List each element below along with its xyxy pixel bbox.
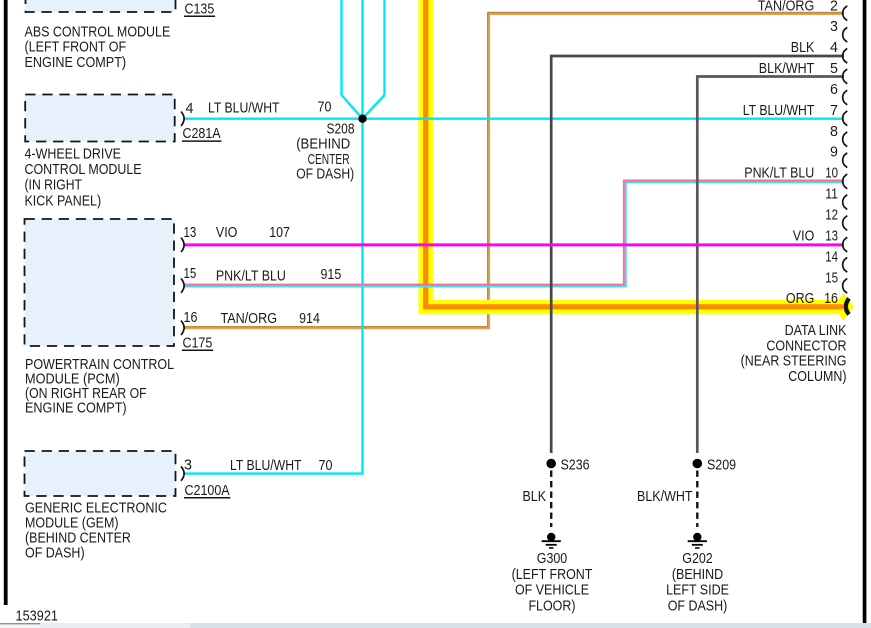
svg-text:6: 6 bbox=[830, 82, 838, 98]
svg-text:13: 13 bbox=[184, 225, 197, 241]
svg-text:POWERTRAIN CONTROL: POWERTRAIN CONTROL bbox=[25, 357, 174, 373]
svg-text:4: 4 bbox=[830, 40, 838, 56]
svg-text:ABS CONTROL MODULE: ABS CONTROL MODULE bbox=[25, 24, 171, 40]
svg-text:VIO: VIO bbox=[216, 225, 238, 241]
svg-text:G300: G300 bbox=[537, 551, 568, 567]
svg-text:PNK/LT BLU: PNK/LT BLU bbox=[216, 269, 286, 285]
svg-text:C175: C175 bbox=[183, 335, 213, 351]
svg-text:16: 16 bbox=[824, 291, 838, 307]
svg-text:3: 3 bbox=[830, 19, 838, 35]
svg-text:CONNECTOR: CONNECTOR bbox=[766, 338, 846, 354]
svg-text:2: 2 bbox=[830, 0, 838, 14]
svg-text:9: 9 bbox=[830, 145, 838, 161]
svg-text:S236: S236 bbox=[561, 457, 590, 473]
svg-text:BLK: BLK bbox=[791, 40, 815, 56]
svg-text:(LEFT FRONT: (LEFT FRONT bbox=[512, 567, 593, 583]
svg-text:FLOOR): FLOOR) bbox=[528, 598, 575, 614]
svg-text:KICK PANEL): KICK PANEL) bbox=[25, 193, 102, 209]
svg-text:(BEHIND CENTER: (BEHIND CENTER bbox=[25, 531, 131, 547]
svg-text:S209: S209 bbox=[707, 457, 736, 473]
svg-text:15: 15 bbox=[825, 270, 838, 286]
svg-text:MODULE (GEM): MODULE (GEM) bbox=[25, 516, 119, 532]
svg-text:OF DASH): OF DASH) bbox=[296, 166, 354, 182]
svg-text:(IN RIGHT: (IN RIGHT bbox=[25, 178, 83, 194]
svg-text:153921: 153921 bbox=[16, 609, 59, 625]
svg-text:BLK/WHT: BLK/WHT bbox=[637, 489, 693, 505]
svg-text:BLK/WHT: BLK/WHT bbox=[759, 61, 815, 77]
svg-text:OF DASH): OF DASH) bbox=[668, 598, 728, 614]
svg-text:LT BLU/WHT: LT BLU/WHT bbox=[208, 100, 280, 116]
svg-text:15: 15 bbox=[184, 266, 197, 282]
svg-text:(NEAR STEERING: (NEAR STEERING bbox=[741, 354, 847, 370]
svg-text:ENGINE COMPT): ENGINE COMPT) bbox=[25, 401, 127, 417]
svg-text:VIO: VIO bbox=[793, 228, 815, 244]
svg-text:4: 4 bbox=[186, 101, 194, 117]
svg-text:ORG: ORG bbox=[786, 291, 814, 307]
svg-text:C281A: C281A bbox=[183, 126, 222, 142]
svg-text:C135: C135 bbox=[185, 1, 215, 17]
svg-text:G202: G202 bbox=[682, 551, 713, 567]
svg-text:3: 3 bbox=[184, 457, 192, 473]
svg-text:8: 8 bbox=[830, 124, 838, 140]
svg-text:LT BLU/WHT: LT BLU/WHT bbox=[230, 458, 302, 474]
svg-text:14: 14 bbox=[825, 249, 838, 265]
svg-text:OF VEHICLE: OF VEHICLE bbox=[515, 583, 589, 599]
svg-text:13: 13 bbox=[825, 228, 838, 244]
svg-text:TAN/ORG: TAN/ORG bbox=[758, 0, 815, 14]
svg-text:OF DASH): OF DASH) bbox=[25, 546, 85, 562]
svg-text:MODULE (PCM): MODULE (PCM) bbox=[25, 371, 120, 387]
svg-text:S208: S208 bbox=[327, 122, 355, 138]
svg-text:5: 5 bbox=[830, 61, 838, 77]
svg-text:C2100A: C2100A bbox=[185, 483, 230, 499]
svg-text:107: 107 bbox=[269, 225, 290, 241]
svg-text:914: 914 bbox=[299, 311, 320, 327]
svg-text:(ON RIGHT REAR OF: (ON RIGHT REAR OF bbox=[25, 386, 147, 402]
svg-text:COLUMN): COLUMN) bbox=[788, 369, 846, 385]
svg-text:LT BLU/WHT: LT BLU/WHT bbox=[743, 103, 815, 119]
svg-text:10: 10 bbox=[825, 166, 838, 182]
svg-text:16: 16 bbox=[184, 310, 198, 326]
svg-text:(LEFT FRONT OF: (LEFT FRONT OF bbox=[25, 40, 127, 56]
svg-text:915: 915 bbox=[321, 267, 342, 283]
svg-text:PNK/LT BLU: PNK/LT BLU bbox=[744, 166, 814, 182]
svg-text:12: 12 bbox=[825, 208, 838, 224]
svg-text:4-WHEEL DRIVE: 4-WHEEL DRIVE bbox=[25, 147, 122, 163]
svg-text:GENERIC ELECTRONIC: GENERIC ELECTRONIC bbox=[25, 500, 167, 516]
svg-text:TAN/ORG: TAN/ORG bbox=[221, 311, 278, 327]
svg-text:7: 7 bbox=[830, 103, 838, 119]
svg-text:DATA LINK: DATA LINK bbox=[785, 323, 847, 339]
svg-text:70: 70 bbox=[318, 99, 332, 115]
svg-text:70: 70 bbox=[319, 458, 333, 474]
svg-text:ENGINE COMPT): ENGINE COMPT) bbox=[25, 55, 127, 71]
svg-text:LEFT SIDE: LEFT SIDE bbox=[666, 583, 729, 599]
svg-text:(BEHIND: (BEHIND bbox=[296, 137, 350, 153]
svg-text:(BEHIND: (BEHIND bbox=[672, 567, 723, 583]
svg-text:BLK: BLK bbox=[523, 489, 547, 505]
svg-text:CONTROL MODULE: CONTROL MODULE bbox=[25, 162, 142, 178]
svg-text:11: 11 bbox=[825, 187, 838, 203]
